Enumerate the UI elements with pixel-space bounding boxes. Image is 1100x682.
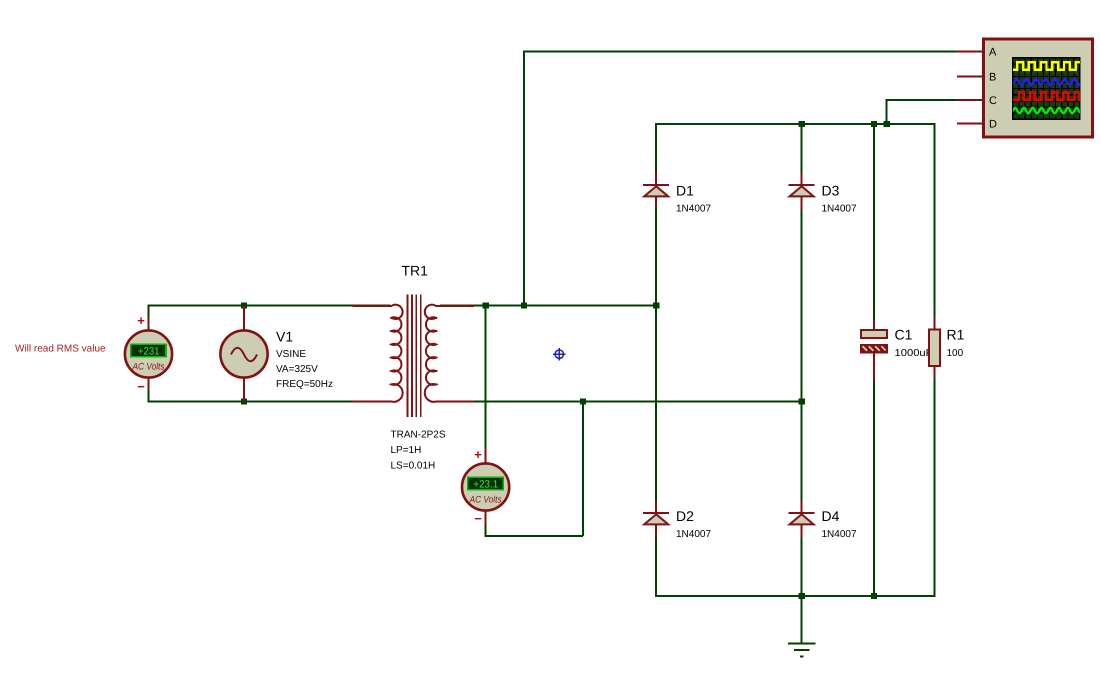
svg-text:LP=1H: LP=1H — [391, 445, 422, 456]
wire secondary top net to bridge — [440, 305, 657, 307]
pin TR1 secondary top stub — [435, 305, 474, 307]
svg-text:FREQ=50Hz: FREQ=50Hz — [276, 379, 333, 390]
wire VM1 minus to bottom rail — [148, 390, 150, 403]
junction C1 on bottom rail — [871, 593, 877, 599]
diode D2 1N4007 — [643, 500, 669, 537]
junction ground on bottom rail — [798, 593, 804, 599]
wire R1 top branch — [934, 123, 936, 319]
wire top output rail — [655, 123, 935, 125]
pin TR1 primary top stub — [353, 305, 393, 307]
junction C1 on top rail — [871, 121, 877, 127]
junction D3 cathode on top rail — [798, 121, 804, 127]
svg-text:A: A — [989, 47, 997, 59]
wire scope C horizontal — [886, 99, 957, 101]
svg-text:+: + — [474, 447, 482, 462]
voltmeter AC Volts 2 (reads +23.1) — [462, 448, 509, 525]
wire VM2 plus vertical — [485, 306, 487, 451]
svg-text:D3: D3 — [822, 183, 840, 199]
svg-text:D: D — [989, 119, 997, 131]
diode D1 1N4007 — [643, 172, 669, 209]
diode D4 1N4007 — [789, 500, 815, 537]
svg-text:AC Volts: AC Volts — [469, 495, 502, 506]
pin B stub — [957, 75, 983, 77]
wire scope A vertical — [523, 51, 525, 306]
svg-text:D2: D2 — [676, 508, 694, 524]
wire VM2 minus horizontal — [485, 535, 583, 537]
svg-text:TRAN-2P2S: TRAN-2P2S — [391, 430, 446, 441]
junction scope C on top rail — [883, 121, 889, 127]
waveform channel A yellow — [1013, 62, 1088, 70]
junction scope A tap — [521, 302, 527, 308]
wire C1 bottom branch — [873, 380, 875, 596]
wire primary bottom rail — [148, 401, 391, 403]
svg-text:C: C — [989, 95, 997, 107]
pin TR1 primary bottom stub — [353, 401, 393, 403]
pin C stub — [957, 99, 983, 101]
wire scope C vertical — [886, 99, 888, 124]
svg-text:100: 100 — [947, 348, 964, 359]
svg-text:C1: C1 — [895, 327, 913, 343]
junction V1 top — [241, 302, 247, 308]
wire VM2 minus down — [485, 524, 487, 537]
svg-text:R1: R1 — [947, 327, 965, 343]
diode D3 1N4007 — [789, 172, 815, 209]
svg-text:AC Volts: AC Volts — [132, 362, 165, 373]
wire bottom output rail — [655, 595, 935, 597]
svg-text:D1: D1 — [676, 183, 694, 199]
svg-text:VSINE: VSINE — [276, 349, 306, 360]
oscilloscope screen — [1013, 58, 1080, 119]
svg-text:−: − — [137, 379, 145, 394]
pin A stub — [957, 51, 983, 53]
inductor TR1 secondary winding — [425, 305, 437, 402]
svg-text:+23.1: +23.1 — [473, 478, 498, 490]
ground — [788, 596, 816, 657]
svg-text:V1: V1 — [276, 329, 293, 345]
svg-text:B: B — [989, 71, 996, 83]
wire C1 top branch — [873, 124, 875, 321]
svg-text:Will read RMS value: Will read RMS value — [15, 344, 106, 355]
svg-text:1N4007: 1N4007 — [822, 204, 857, 215]
source V1 VSINE — [220, 306, 267, 402]
waveform channel B blue — [1012, 79, 1089, 86]
svg-text:1N4007: 1N4007 — [676, 529, 711, 540]
svg-text:+: + — [137, 313, 145, 328]
junction D1-D2 node — [653, 302, 659, 308]
svg-text:1N4007: 1N4007 — [822, 529, 857, 540]
wire D2 anode to bottom rail — [655, 537, 657, 597]
junction D3-D4 node — [798, 398, 804, 404]
wire scope A horizontal — [523, 51, 957, 53]
junction V1 bottom — [241, 398, 247, 404]
wire primary top rail (VM1/V1/TR1 primary) — [148, 305, 391, 307]
junction VM2 return — [580, 398, 586, 404]
oscilloscope body — [983, 39, 1092, 137]
resistor R1 100 — [929, 317, 940, 379]
origin marker (blue crosshair) — [553, 348, 566, 360]
svg-text:+231: +231 — [138, 345, 160, 357]
wire D1-D2 branch vertical — [655, 123, 657, 501]
svg-text:D4: D4 — [822, 508, 840, 524]
waveform channel C red — [1013, 92, 1086, 99]
pin TR1 secondary bottom stub — [435, 401, 474, 403]
wire VM2 minus up to bottom net — [582, 402, 584, 537]
inductor TR1 primary winding — [390, 305, 402, 402]
wire secondary bottom net to bridge — [440, 401, 803, 403]
wire D4 anode to bottom rail — [801, 537, 803, 597]
svg-text:LS=0.01H: LS=0.01H — [391, 461, 436, 472]
pin D stub — [957, 123, 983, 125]
svg-text:−: − — [474, 511, 482, 526]
svg-text:TR1: TR1 — [402, 263, 429, 279]
waveform channel D green — [1013, 108, 1083, 113]
svg-text:1000uF: 1000uF — [895, 348, 933, 359]
svg-text:VA=325V: VA=325V — [276, 364, 318, 375]
transformer TR1 core — [408, 295, 421, 418]
capacitor C1 1000uF — [861, 319, 887, 381]
wire voltmeter VM1 plus to top rail — [148, 305, 150, 319]
svg-text:1N4007: 1N4007 — [676, 204, 711, 215]
wire R1 bottom branch — [934, 377, 936, 597]
voltmeter AC Volts (reads +231) — [125, 318, 172, 390]
wire D3-D4 branch vertical — [801, 123, 803, 501]
junction VM2 tap — [482, 302, 488, 308]
